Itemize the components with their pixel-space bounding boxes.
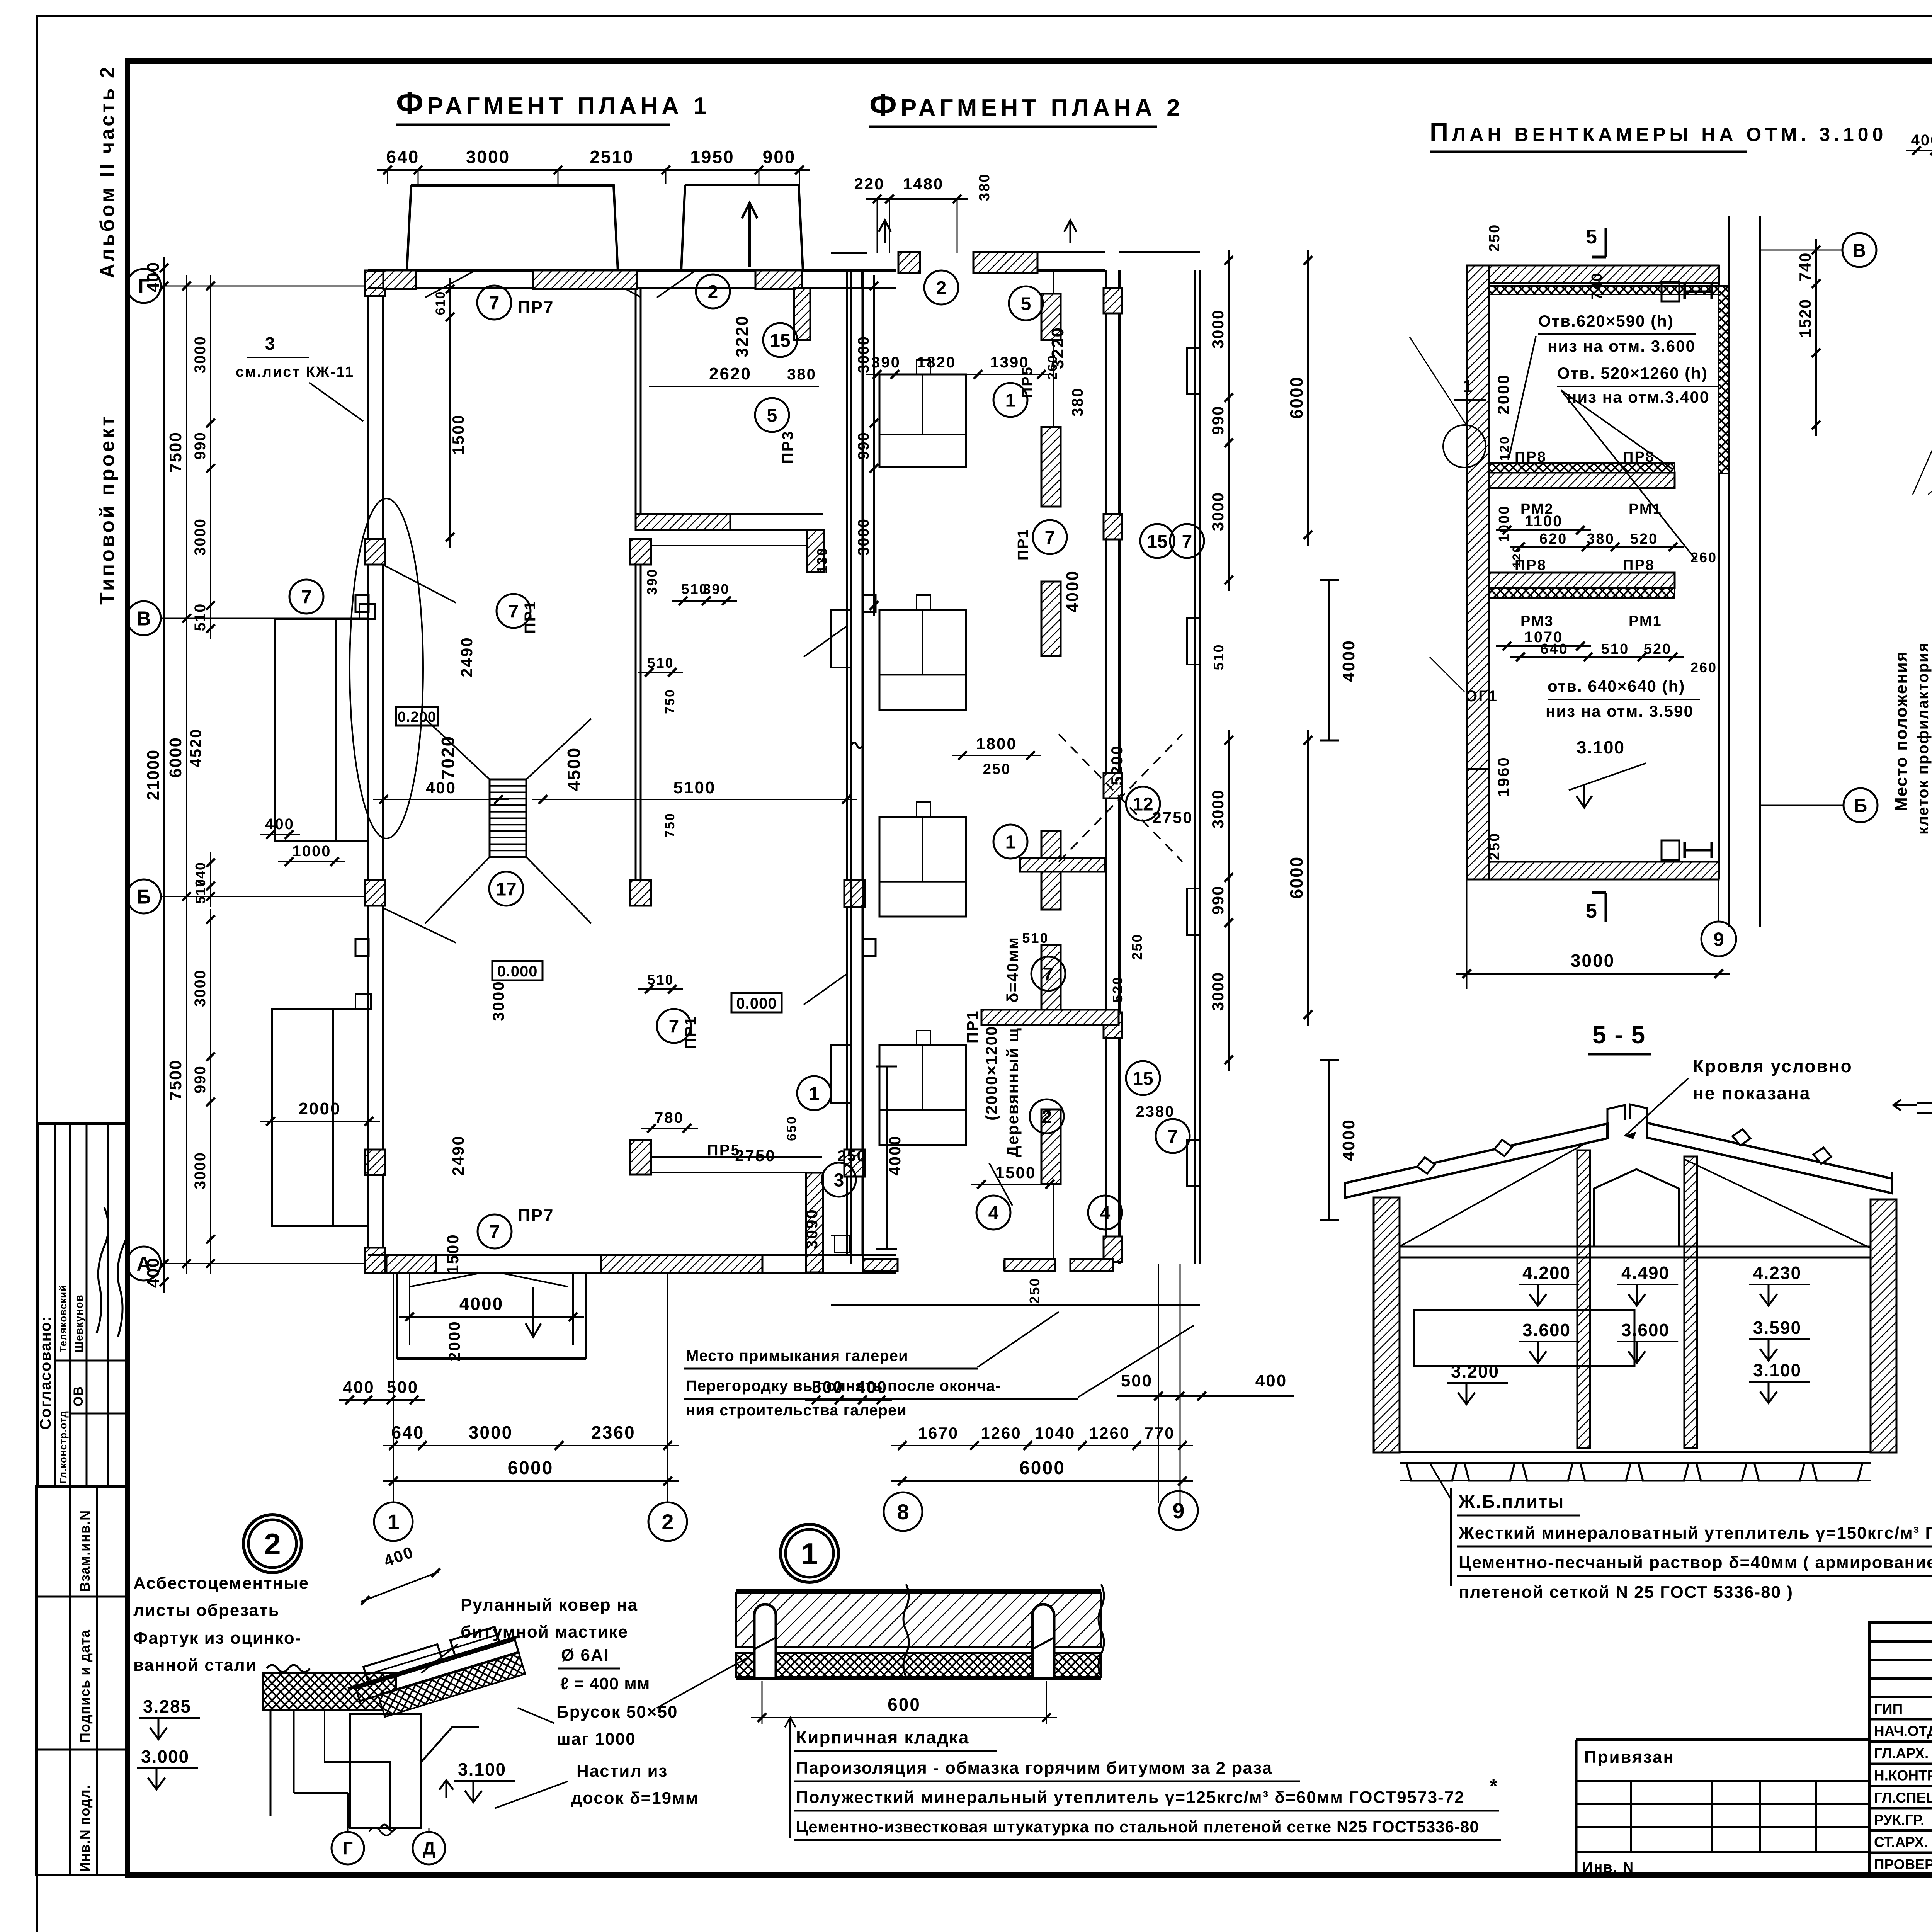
svg-text:260: 260 (1690, 660, 1717, 675)
svg-text:Б: Б (1854, 796, 1867, 816)
svg-text:*: * (1490, 1775, 1498, 1798)
vent bottom dim (1456, 973, 1730, 975)
svg-text:1000: 1000 (1496, 505, 1512, 543)
svg-text:15: 15 (1147, 531, 1167, 552)
svg-text:шаг 1000: шаг 1000 (556, 1730, 636, 1748)
svg-text:2750: 2750 (1152, 808, 1193, 827)
svg-text:520: 520 (1110, 976, 1126, 1002)
svg-text:120: 120 (1497, 435, 1512, 461)
svg-text:1800: 1800 (976, 735, 1017, 753)
svg-text:1500: 1500 (995, 1163, 1036, 1182)
svg-text:390: 390 (871, 354, 901, 371)
svg-text:500: 500 (387, 1378, 418, 1397)
svg-text:380: 380 (1587, 531, 1614, 547)
svg-text:Шевкунов: Шевкунов (73, 1294, 85, 1352)
svg-text:ГЛ.СПЕЦ.: ГЛ.СПЕЦ. (1874, 1790, 1932, 1806)
svg-text:510: 510 (1601, 641, 1629, 657)
svg-text:НАЧ.ОТД.: НАЧ.ОТД. (1874, 1723, 1932, 1739)
svg-text:510: 510 (1022, 930, 1049, 946)
svg-text:7: 7 (1168, 1126, 1178, 1147)
svg-text:7: 7 (490, 1222, 500, 1242)
svg-text:ПР3: ПР3 (779, 430, 796, 464)
masonry notes (789, 1718, 791, 1838)
svg-text:ПР7: ПР7 (518, 1206, 554, 1225)
svg-text:2: 2 (662, 1510, 673, 1534)
svg-text:Привязан: Привязан (1584, 1748, 1675, 1767)
svg-text:Г: Г (343, 1838, 353, 1859)
svg-text:6000: 6000 (1019, 1458, 1065, 1478)
svg-text:Руланный ковер на: Руланный ковер на (461, 1595, 638, 1614)
svg-text:250: 250 (1486, 832, 1503, 860)
svg-text:3000: 3000 (466, 147, 510, 167)
svg-text:380: 380 (976, 173, 993, 201)
svg-text:130: 130 (814, 547, 830, 573)
title block: left annex (Привязан) (1575, 1740, 1578, 1875)
svg-text:РМ1: РМ1 (1629, 613, 1662, 629)
svg-text:15: 15 (1133, 1068, 1153, 1089)
svg-text:0.200: 0.200 (398, 709, 436, 725)
svg-text:650: 650 (784, 1116, 799, 1141)
svg-text:2490: 2490 (449, 1135, 467, 1175)
svg-text:1480: 1480 (903, 175, 944, 193)
svg-text:3000: 3000 (192, 969, 209, 1007)
svg-text:4000: 4000 (1339, 1119, 1358, 1161)
svg-text:Жесткий минераловатный утеплит: Жесткий минераловатный утеплитель γ=150к… (1458, 1524, 1932, 1543)
plan 2 bottom walls (863, 1259, 898, 1271)
svg-text:510: 510 (192, 603, 209, 631)
svg-text:2000: 2000 (299, 1099, 341, 1118)
left pens (275, 619, 368, 841)
svg-text:Теляковский: Теляковский (57, 1285, 69, 1352)
svg-text:ПР1: ПР1 (1015, 528, 1031, 560)
svg-text:не показана: не показана (1693, 1083, 1811, 1103)
svg-text:3: 3 (834, 1170, 844, 1190)
svg-text:7: 7 (489, 293, 500, 313)
gallery (396, 1273, 398, 1359)
svg-text:Фартук из оцинко-: Фартук из оцинко- (133, 1629, 301, 1648)
plan 2 central piers (1041, 427, 1061, 507)
svg-text:9: 9 (1172, 1498, 1184, 1523)
svg-text:520: 520 (1630, 531, 1658, 547)
svg-text:(2000×1200): (2000×1200) (982, 1020, 1000, 1121)
svg-text:0.000: 0.000 (497, 963, 537, 980)
svg-text:ванной стали: ванной стали (133, 1656, 257, 1675)
svg-text:В: В (1853, 240, 1866, 261)
plan 2 stalls (879, 374, 966, 467)
svg-text:ПРОВЕР.: ПРОВЕР. (1874, 1857, 1932, 1872)
left margin inventory table (36, 1486, 127, 1875)
svg-text:4000: 4000 (886, 1135, 904, 1175)
svg-text:390: 390 (703, 581, 730, 597)
svg-text:7500: 7500 (166, 432, 185, 473)
svg-text:1: 1 (1005, 390, 1016, 411)
svg-text:ОГ1: ОГ1 (1465, 688, 1498, 705)
svg-text:3000: 3000 (1209, 492, 1227, 531)
svg-text:400: 400 (343, 1378, 374, 1397)
svg-text:Место положения: Место положения (1892, 651, 1911, 812)
svg-text:5: 5 (1021, 294, 1031, 314)
svg-text:750: 750 (663, 689, 677, 714)
svg-text:2000: 2000 (445, 1320, 463, 1361)
svg-text:3.600: 3.600 (1522, 1320, 1571, 1340)
svg-text:3000: 3000 (1209, 789, 1227, 828)
svg-text:3.100: 3.100 (1753, 1360, 1801, 1380)
svg-text:2360: 2360 (591, 1422, 635, 1442)
svg-text:4500: 4500 (564, 747, 584, 791)
svg-text:7: 7 (509, 601, 519, 622)
svg-text:Кирпичная кладка: Кирпичная кладка (796, 1727, 969, 1747)
svg-text:21000: 21000 (144, 749, 163, 800)
svg-text:Отв. 520×1260 (h): Отв. 520×1260 (h) (1557, 364, 1708, 382)
svg-text:900: 900 (763, 147, 796, 167)
svg-text:Ø 6АI: Ø 6АI (561, 1646, 609, 1665)
svg-text:1260: 1260 (1089, 1424, 1130, 1442)
svg-text:15: 15 (770, 330, 790, 351)
svg-text:ПР7: ПР7 (518, 298, 554, 317)
svg-text:Согласовано:: Согласовано: (37, 1315, 54, 1430)
svg-text:4.200: 4.200 (1522, 1263, 1571, 1283)
svg-text:4000: 4000 (1339, 639, 1358, 682)
svg-text:ПР8: ПР8 (1515, 449, 1547, 465)
svg-text:1: 1 (809, 1083, 820, 1104)
svg-text:0.000: 0.000 (736, 995, 777, 1012)
svg-text:5200: 5200 (1108, 745, 1126, 785)
svg-text:400: 400 (144, 262, 163, 292)
detail 1 circle (781, 1524, 838, 1582)
svg-text:3.200: 3.200 (1451, 1361, 1499, 1381)
svg-text:6000: 6000 (1286, 856, 1306, 899)
plan 1 building walls (367, 270, 369, 1273)
svg-text:3000: 3000 (1209, 310, 1227, 349)
svg-text:1: 1 (801, 1537, 818, 1571)
svg-text:7: 7 (1045, 527, 1055, 548)
svg-text:6000: 6000 (508, 1458, 554, 1478)
svg-text:990: 990 (1209, 885, 1227, 915)
svg-text:7020: 7020 (438, 735, 458, 779)
plan 2 left gallery wall (850, 270, 852, 1264)
svg-text:400: 400 (144, 1257, 163, 1288)
plan 2 bottom dims (1117, 1395, 1294, 1397)
svg-text:Настил из: Настил из (577, 1762, 668, 1781)
svg-text:4.490: 4.490 (1621, 1263, 1670, 1283)
svg-text:досок δ=19мм: досок δ=19мм (571, 1789, 699, 1808)
svg-text:5 - 5: 5 - 5 (1592, 1021, 1646, 1049)
plan 2 top wall (831, 252, 867, 254)
section notes (1450, 1488, 1452, 1586)
svg-text:3000: 3000 (489, 980, 507, 1021)
svg-text:ПР1: ПР1 (964, 1010, 981, 1043)
svg-text:1: 1 (387, 1510, 399, 1534)
svg-text:Место примыкания галереи: Место примыкания галереи (686, 1347, 908, 1364)
svg-text:740: 740 (1589, 272, 1605, 300)
svg-text:плетеной сеткой N 25 ГОСТ 5336: плетеной сеткой N 25 ГОСТ 5336-80 ) (1459, 1583, 1793, 1602)
svg-text:Типовой проект: Типовой проект (96, 414, 119, 605)
svg-text:ГЛ.АРХ.: ГЛ.АРХ. (1874, 1745, 1929, 1761)
plan 2 right wall and rooms (1105, 270, 1107, 1264)
svg-text:4520: 4520 (187, 728, 204, 767)
svg-text:1070: 1070 (1524, 629, 1563, 646)
svg-text:В: В (136, 608, 151, 630)
svg-text:2490: 2490 (457, 636, 476, 677)
svg-text:РУК.ГР.: РУК.ГР. (1874, 1812, 1924, 1828)
svg-text:4.230: 4.230 (1753, 1263, 1801, 1283)
svg-text:см.лист КЖ-11: см.лист КЖ-11 (236, 364, 354, 380)
svg-text:5100: 5100 (673, 778, 716, 797)
svg-text:битумной мастике: битумной мастике (461, 1622, 628, 1641)
svg-text:1260: 1260 (981, 1424, 1021, 1442)
svg-text:низ на отм. 3.600: низ на отм. 3.600 (1548, 337, 1696, 355)
svg-text:листы обрезать: листы обрезать (133, 1601, 280, 1620)
svg-text:2000: 2000 (1494, 374, 1512, 414)
svg-text:990: 990 (192, 432, 209, 460)
svg-text:СТ.АРХ.: СТ.АРХ. (1874, 1834, 1928, 1850)
section walls (1374, 1197, 1400, 1452)
svg-text:Брусок 50×50: Брусок 50×50 (556, 1702, 678, 1721)
svg-text:7: 7 (1182, 531, 1192, 552)
svg-text:Альбом II часть 2: Альбом II часть 2 (96, 65, 119, 278)
svg-text:ПР1: ПР1 (522, 600, 539, 634)
svg-text:400: 400 (1911, 132, 1932, 149)
svg-text:ПР1: ПР1 (682, 1015, 699, 1049)
svg-text:Асбестоцементные: Асбестоцементные (133, 1574, 309, 1593)
svg-text:250: 250 (1486, 224, 1503, 252)
svg-text:1000: 1000 (293, 843, 332, 860)
svg-text:17: 17 (496, 879, 516, 900)
svg-text:8: 8 (897, 1500, 909, 1524)
left margin approval table (38, 1124, 128, 1486)
svg-text:520: 520 (1644, 641, 1672, 657)
svg-text:1820: 1820 (917, 354, 956, 371)
svg-text:Цементно-песчаный раствор δ=40: Цементно-песчаный раствор δ=40мм ( армир… (1459, 1553, 1932, 1572)
svg-text:низ на отм.3.400: низ на отм.3.400 (1567, 388, 1709, 406)
plan 2 right dim chains (1228, 250, 1230, 591)
vent right dims (1815, 239, 1817, 436)
svg-text:Деревянный щит δ=40мм: Деревянный щит δ=40мм (1003, 937, 1022, 1157)
svg-text:5: 5 (767, 405, 777, 426)
svg-text:7: 7 (301, 587, 312, 607)
svg-text:640: 640 (386, 147, 420, 167)
section floor slab (1400, 1451, 1871, 1453)
svg-text:750: 750 (663, 812, 677, 838)
svg-text:ПР5: ПР5 (1019, 366, 1036, 398)
rooms 1,3 (630, 1140, 651, 1175)
svg-text:2750: 2750 (735, 1146, 776, 1165)
svg-text:640: 640 (391, 1422, 425, 1442)
svg-text:3.000: 3.000 (141, 1747, 189, 1767)
svg-text:2620: 2620 (709, 364, 752, 383)
svg-text:3.100: 3.100 (458, 1759, 506, 1779)
svg-text:780: 780 (655, 1109, 684, 1126)
svg-text:400: 400 (426, 779, 456, 797)
svg-text:510: 510 (1211, 643, 1226, 670)
plan 2 top dims (866, 198, 968, 200)
svg-text:990: 990 (1209, 405, 1227, 435)
svg-text:Ж.Б.плиты: Ж.Б.плиты (1458, 1492, 1565, 1512)
detail 2 drawing (263, 1673, 396, 1710)
svg-text:Перегородку выполнять после ок: Перегородку выполнять после оконча- (686, 1378, 1001, 1395)
svg-text:400: 400 (265, 816, 294, 833)
svg-text:Цементно-известковая штукатурк: Цементно-известковая штукатурка по сталь… (796, 1818, 1479, 1836)
plan 1 bottom dim chains (339, 1399, 425, 1401)
title block: signature table (1869, 1623, 1932, 1875)
svg-text:1960: 1960 (1494, 756, 1512, 797)
svg-text:3000: 3000 (1209, 972, 1227, 1011)
svg-text:3220: 3220 (733, 315, 752, 357)
svg-text:4000: 4000 (459, 1294, 503, 1314)
svg-text:510: 510 (647, 972, 674, 988)
svg-text:Н.КОНТР: Н.КОНТР (1874, 1768, 1932, 1784)
plan 2 circles (993, 383, 1027, 417)
svg-text:5: 5 (1586, 900, 1598, 922)
svg-text:3.590: 3.590 (1753, 1318, 1801, 1338)
svg-text:отв. 640×640 (h): отв. 640×640 (h) (1548, 677, 1685, 695)
svg-text:2: 2 (708, 282, 718, 302)
svg-text:Полужесткий минеральный утепли: Полужесткий минеральный утеплитель γ=125… (796, 1788, 1465, 1807)
svg-text:2: 2 (1042, 1107, 1052, 1127)
svg-text:3.285: 3.285 (143, 1696, 191, 1716)
svg-text:400: 400 (1255, 1371, 1287, 1390)
svg-text:500: 500 (1121, 1371, 1153, 1390)
svg-text:1: 1 (1005, 832, 1016, 852)
svg-text:620: 620 (1539, 531, 1567, 547)
svg-text:260: 260 (1045, 354, 1060, 380)
svg-text:3000: 3000 (469, 1422, 513, 1442)
section roof (1345, 1124, 1607, 1198)
detail 1 slab (736, 1593, 1101, 1647)
svg-text:4000: 4000 (1063, 570, 1082, 612)
svg-text:1100: 1100 (1525, 513, 1563, 530)
svg-text:5: 5 (1586, 226, 1598, 248)
svg-text:1: 1 (1463, 376, 1474, 396)
svg-text:3000: 3000 (192, 518, 209, 556)
svg-text:220: 220 (854, 175, 884, 193)
svg-text:3000: 3000 (192, 336, 209, 373)
svg-text:ГИП: ГИП (1874, 1701, 1903, 1717)
svg-text:Гл.констр.отд: Гл.констр.отд (57, 1411, 69, 1484)
svg-text:Кровля условно: Кровля условно (1693, 1056, 1853, 1076)
svg-text:770: 770 (1144, 1424, 1175, 1442)
svg-text:390: 390 (644, 568, 660, 595)
svg-text:Взам.инв.N: Взам.инв.N (77, 1510, 93, 1592)
plan 1 right chain (873, 275, 875, 616)
svg-text:Б: Б (136, 886, 151, 908)
svg-text:380: 380 (1069, 387, 1086, 417)
stair (490, 779, 526, 857)
svg-text:3: 3 (265, 333, 276, 354)
svg-text:1500: 1500 (449, 414, 467, 454)
svg-text:12: 12 (1133, 794, 1153, 815)
svg-text:Подпись и дата: Подпись и дата (77, 1629, 93, 1743)
svg-text:510: 510 (192, 878, 208, 904)
svg-text:Отв.620×590 (h): Отв.620×590 (h) (1538, 312, 1674, 330)
svg-text:250: 250 (1027, 1277, 1043, 1304)
svg-text:990: 990 (192, 1065, 209, 1094)
svg-text:3.600: 3.600 (1621, 1320, 1670, 1340)
axis circles (127, 269, 161, 303)
svg-text:9: 9 (1713, 929, 1724, 950)
svg-text:1670: 1670 (918, 1424, 959, 1442)
svg-text:ОВ: ОВ (71, 1386, 86, 1406)
plan 1 left dim chains (163, 257, 165, 1293)
svg-text:7500: 7500 (166, 1060, 185, 1100)
svg-text:2510: 2510 (590, 147, 634, 167)
svg-text:740: 740 (1796, 252, 1814, 281)
svg-text:1950: 1950 (690, 147, 734, 167)
svg-text:600: 600 (888, 1694, 921, 1714)
svg-text:1520: 1520 (1796, 299, 1814, 338)
svg-text:610: 610 (433, 291, 448, 315)
plan 2 dims small (866, 374, 1052, 375)
detail 2 circle (243, 1515, 301, 1573)
svg-text:6000: 6000 (166, 737, 185, 778)
svg-text:2380: 2380 (1136, 1103, 1175, 1120)
svg-text:120: 120 (1510, 545, 1523, 568)
svg-text:7: 7 (669, 1016, 679, 1037)
svg-text:3090: 3090 (803, 1208, 821, 1249)
inner piers column (630, 539, 651, 565)
svg-text:2: 2 (936, 278, 947, 298)
svg-text:1040: 1040 (1035, 1424, 1075, 1442)
svg-text:ПР8: ПР8 (1623, 557, 1655, 573)
plan 1 top dim chain (377, 169, 810, 171)
svg-text:3000: 3000 (192, 1152, 209, 1189)
svg-text:3.100: 3.100 (1577, 737, 1625, 757)
svg-text:7: 7 (1043, 964, 1054, 985)
plan 2 rooms right of wall (1194, 270, 1196, 1264)
svg-text:6000: 6000 (1286, 376, 1306, 419)
plan 1 vent shafts (407, 185, 618, 270)
svg-text:Д: Д (423, 1838, 435, 1859)
svg-text:низ на отм. 3.590: низ на отм. 3.590 (1546, 702, 1694, 720)
svg-text:Инв. N: Инв. N (1582, 1859, 1634, 1876)
svg-text:250: 250 (1129, 933, 1145, 960)
svg-text:клеток профилактория: клеток профилактория (1915, 642, 1932, 835)
svg-text:4: 4 (988, 1203, 999, 1223)
svg-text:ПР8: ПР8 (1623, 449, 1655, 465)
svg-text:РМ3: РМ3 (1520, 613, 1554, 629)
svg-text:Инв.N подл.: Инв.N подл. (77, 1785, 93, 1872)
svg-text:ℓ = 400 мм: ℓ = 400 мм (560, 1674, 650, 1693)
svg-text:РМ1: РМ1 (1629, 501, 1662, 517)
svg-text:Пароизоляция - обмазка горячим: Пароизоляция - обмазка горячим битумом з… (796, 1759, 1272, 1777)
svg-text:380: 380 (787, 366, 816, 383)
svg-text:3000: 3000 (1571, 951, 1615, 971)
svg-text:510: 510 (647, 655, 674, 671)
svg-text:2: 2 (264, 1527, 281, 1561)
svg-text:260: 260 (1690, 549, 1717, 565)
vent plan walls (1467, 265, 1489, 769)
svg-text:250: 250 (983, 761, 1011, 777)
svg-text:ния строительства галереи: ния строительства галереи (686, 1402, 907, 1419)
